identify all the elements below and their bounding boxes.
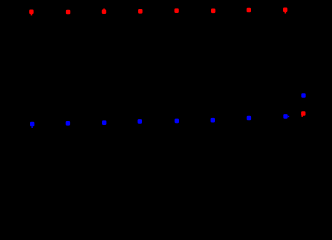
wire: chain backbone column 7 (248, 12, 250, 115)
oxygen atom O2 (66, 10, 70, 15)
oxygen atom O4 (138, 9, 142, 14)
nitrogen atom N5 (175, 119, 179, 124)
wire: chain backbone column 8 (284, 12, 286, 114)
wire: chain backbone column 3 (103, 14, 105, 120)
nitrogen atom N2 (66, 121, 70, 126)
nitrogen atom N7 (247, 116, 251, 121)
wire: chain backbone column 5 (176, 13, 178, 118)
oxygen atom O3 (102, 9, 106, 15)
wire: chain backbone column 1 (30, 14, 33, 121)
oxygen atom O1 (29, 10, 33, 16)
oxygen atom O6 (211, 9, 215, 14)
nitrogen atom N1 (30, 122, 34, 128)
wire: chain backbone column 4 (139, 14, 142, 119)
wire: chain backbone column 2 (67, 14, 69, 121)
oxygen atom O9 (terminal) (301, 111, 305, 117)
nitrogen atom N8 (283, 114, 289, 119)
wire: chain backbone column 6 (212, 13, 214, 118)
oxygen atom O5 (174, 8, 178, 13)
nitrogen atom N3 (102, 120, 106, 125)
oxygen atom O7 (247, 8, 251, 13)
oxygen atom O8 (283, 8, 287, 14)
nitrogen atom N6 (211, 118, 215, 123)
nitrogen atom N4 (138, 119, 142, 124)
nitrogen atom N9 (terminal) (301, 93, 305, 98)
wire: terminal linkage N8-O9-N9 (286, 96, 304, 117)
